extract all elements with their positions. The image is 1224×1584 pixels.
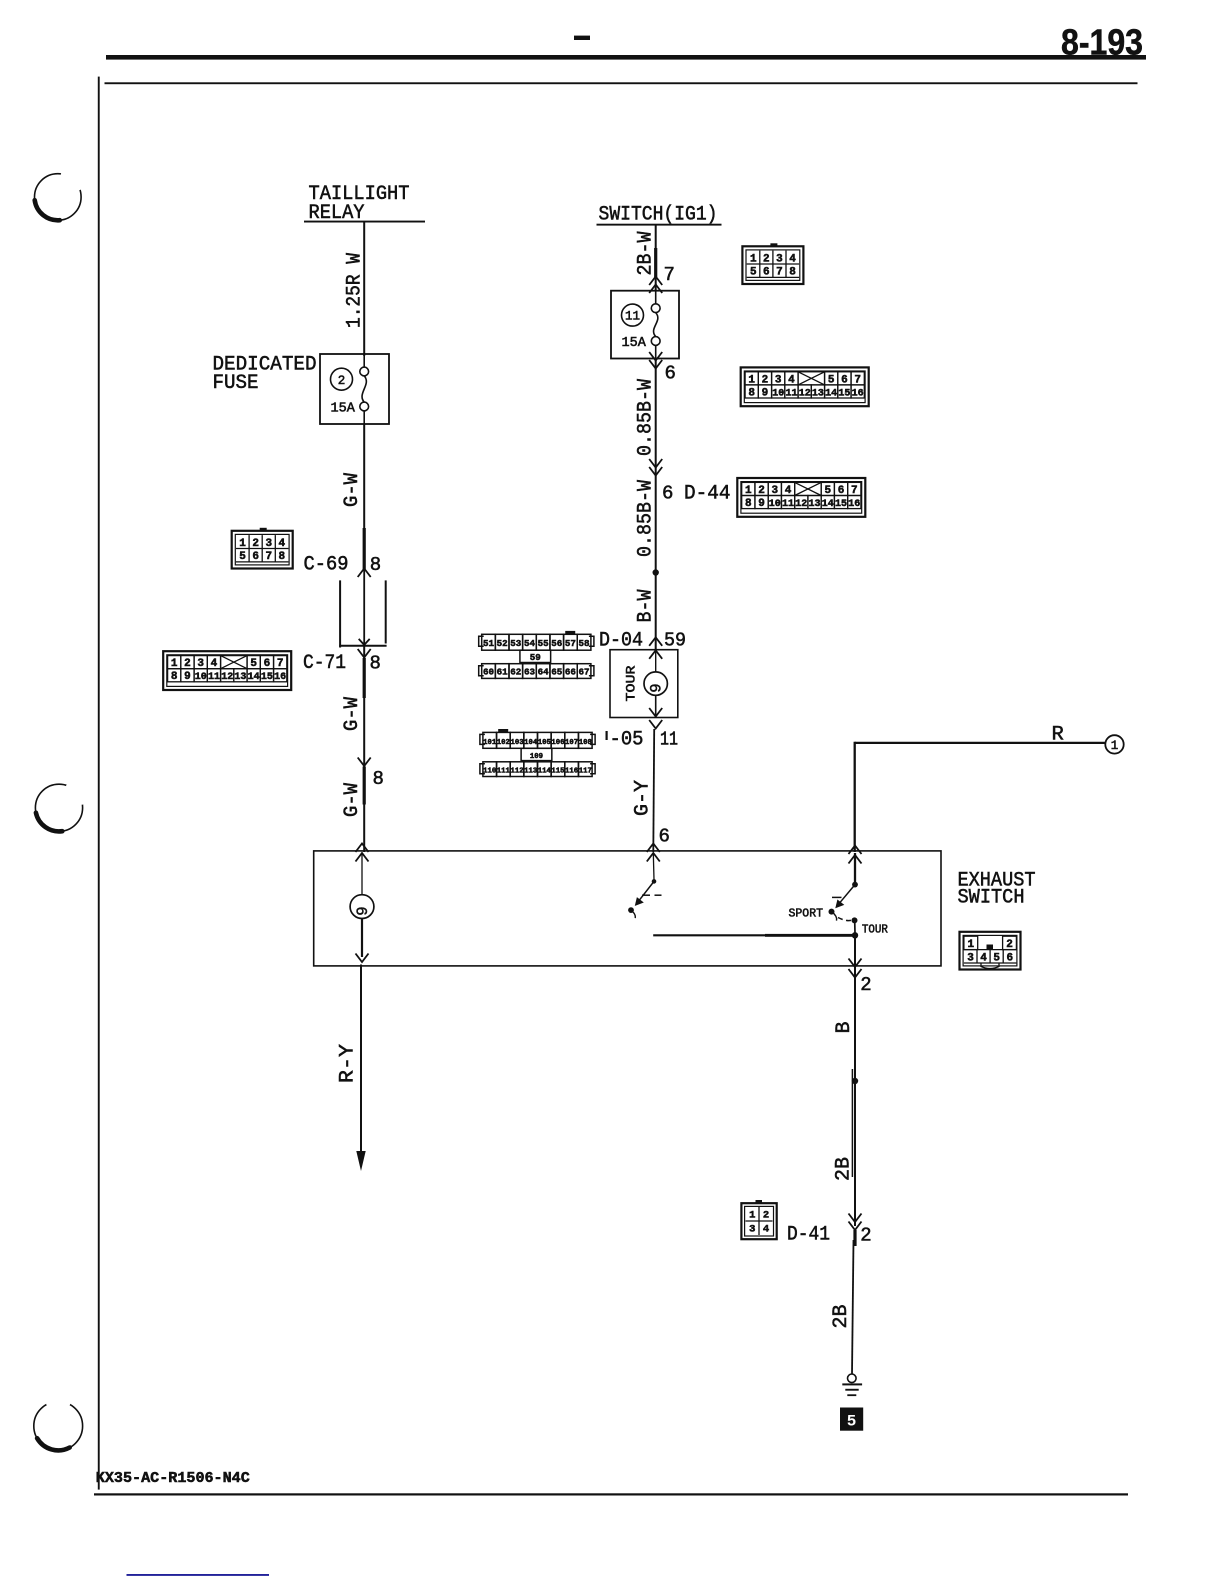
- svg-text:7: 7: [851, 485, 858, 497]
- svg-text:1: 1: [749, 1210, 755, 1222]
- svg-text:15: 15: [261, 672, 273, 683]
- svg-text:51: 51: [483, 638, 495, 649]
- wire B below exhaust switch: [854, 935, 856, 1226]
- switch common line to TOUR contact: [653, 934, 855, 936]
- svg-text:3: 3: [775, 374, 782, 386]
- svg-text:4: 4: [279, 538, 286, 550]
- inline connector arrow C-71 pin 8: [358, 649, 371, 658]
- inline connector arrow C-69 pin 8: [363, 528, 366, 569]
- svg-text:B-W: B-W: [635, 589, 658, 623]
- svg-text:3: 3: [967, 952, 974, 964]
- dashed link SPORT to TOUR: [838, 918, 851, 921]
- left page border line: [98, 77, 100, 1490]
- inline connector arrow D-44 pin 6: [649, 467, 662, 476]
- svg-text:107: 107: [565, 739, 578, 747]
- svg-text:2: 2: [758, 485, 765, 497]
- svg-text:9: 9: [758, 498, 765, 510]
- svg-text:16: 16: [274, 672, 286, 683]
- ring terminal 1: [1105, 735, 1123, 753]
- svg-text:SWITCH(IG1): SWITCH(IG1): [599, 204, 718, 227]
- svg-text:1: 1: [171, 658, 178, 670]
- connector pinout 8-pin (switch IG1): [770, 243, 777, 247]
- svg-text:11: 11: [660, 729, 678, 751]
- svg-text:0.85B-W: 0.85B-W: [635, 479, 658, 557]
- inline connector arrow D-41 pin 2: [849, 1222, 862, 1231]
- connector C-71 pinout (16-pin): [163, 651, 291, 690]
- wire R-Y to ground terminal: [360, 965, 362, 1155]
- svg-text:6: 6: [662, 483, 673, 505]
- svg-text:58: 58: [579, 638, 591, 649]
- svg-text:114: 114: [538, 767, 552, 775]
- svg-text:14: 14: [822, 499, 834, 510]
- svg-text:102: 102: [497, 739, 510, 747]
- svg-text:9: 9: [762, 387, 769, 399]
- svg-text:FUSE: FUSE: [213, 372, 259, 395]
- svg-text:16: 16: [852, 388, 864, 399]
- svg-text:1: 1: [750, 253, 757, 265]
- svg-text:8: 8: [748, 387, 755, 399]
- arrow into exhaust switch box left pin: [356, 844, 369, 853]
- svg-text:56: 56: [551, 638, 562, 649]
- switch position dash right: [832, 896, 842, 898]
- wire R to connector 1: [855, 742, 1106, 744]
- svg-text:112: 112: [510, 767, 523, 775]
- hole punch bottom: [34, 1402, 83, 1451]
- svg-text:7: 7: [776, 267, 783, 279]
- taillight relay bus underline: [304, 221, 425, 223]
- svg-text:15: 15: [835, 499, 847, 510]
- svg-text:2B-W: 2B-W: [635, 231, 658, 276]
- svg-text:105: 105: [538, 739, 551, 747]
- svg-text:14: 14: [248, 672, 260, 683]
- svg-text:11: 11: [785, 388, 797, 399]
- ground symbol: [848, 1374, 857, 1383]
- svg-text:5: 5: [847, 1413, 857, 1431]
- svg-text:KX35-AC-R1506-N4C: KX35-AC-R1506-N4C: [96, 1470, 250, 1487]
- svg-text:4: 4: [763, 1224, 769, 1236]
- connector D-04 pinout (pins 51-67): [565, 631, 575, 635]
- connector D-44 pinout (16-pin): [737, 478, 865, 517]
- svg-text:2: 2: [763, 1210, 769, 1222]
- svg-text:65: 65: [551, 666, 563, 677]
- svg-text:4: 4: [785, 485, 792, 497]
- svg-text:16: 16: [848, 499, 860, 510]
- parallel wire segment 2B: [851, 1069, 853, 1177]
- wire into joint bracket: [363, 569, 365, 646]
- svg-text:6: 6: [763, 267, 770, 279]
- svg-text:8: 8: [370, 554, 381, 576]
- footer rule: [94, 1493, 1128, 1495]
- connector C-69 pinout (8-pin): [260, 528, 267, 532]
- svg-text:2B: 2B: [830, 1305, 853, 1329]
- svg-text:101: 101: [483, 739, 497, 747]
- svg-text:5: 5: [250, 658, 257, 670]
- svg-text:108: 108: [579, 739, 592, 747]
- header dash mark: [574, 36, 590, 40]
- svg-text:15: 15: [838, 388, 850, 399]
- svg-text:6: 6: [264, 658, 271, 670]
- SPORT contact: [829, 909, 835, 915]
- svg-text:12: 12: [799, 388, 811, 399]
- wire G-Y to exhaust switch: [652, 729, 655, 852]
- svg-text:R-Y: R-Y: [337, 1044, 360, 1083]
- svg-text:2: 2: [184, 658, 191, 670]
- svg-text:111: 111: [497, 767, 511, 775]
- header thick rule: [106, 55, 1146, 60]
- svg-text:6: 6: [659, 826, 670, 848]
- inline connector arrow pin 7: [649, 277, 662, 286]
- svg-text:2B: 2B: [833, 1157, 856, 1181]
- svg-text:11: 11: [208, 672, 220, 683]
- svg-text:59: 59: [664, 630, 686, 652]
- header thin rule: [105, 82, 1138, 84]
- svg-text:66: 66: [565, 666, 576, 677]
- svg-text:61: 61: [497, 666, 509, 677]
- junction node on B wire: [852, 1078, 858, 1084]
- svg-text:3: 3: [197, 658, 204, 670]
- svg-text:106: 106: [551, 739, 564, 747]
- svg-text:2: 2: [763, 253, 770, 265]
- svg-text:9: 9: [184, 671, 191, 683]
- wire G-W below C-71: [363, 646, 365, 852]
- svg-text:59: 59: [530, 652, 541, 663]
- connector pinout 16-pin (below fuse): [741, 367, 869, 406]
- connector pinout 6-pin (exhaust switch): [960, 932, 1021, 970]
- svg-text:G-W: G-W: [341, 782, 364, 817]
- svg-text:4: 4: [788, 374, 795, 386]
- svg-text:C-71: C-71: [303, 652, 346, 675]
- svg-text:6: 6: [841, 374, 848, 386]
- svg-text:B: B: [833, 1022, 856, 1034]
- svg-text:3: 3: [772, 485, 779, 497]
- svg-text:103: 103: [510, 739, 524, 747]
- svg-text:SWITCH: SWITCH: [958, 887, 1025, 910]
- svg-text:117: 117: [579, 767, 592, 775]
- svg-text:12: 12: [221, 672, 233, 683]
- svg-text:110: 110: [483, 767, 496, 775]
- svg-text:9: 9: [648, 683, 666, 692]
- svg-text:G-W: G-W: [341, 696, 364, 731]
- svg-text:5: 5: [239, 551, 246, 563]
- svg-text:6: 6: [838, 485, 845, 497]
- joint connector bracket: [339, 580, 341, 647]
- TOUR indicator box: [610, 650, 678, 718]
- svg-text:2: 2: [338, 374, 346, 388]
- inline connector arrow D-04 pin 59: [649, 637, 662, 646]
- svg-text:0.85B-W: 0.85B-W: [635, 378, 658, 456]
- svg-text:116: 116: [565, 767, 578, 775]
- exhaust switch box: [314, 851, 941, 966]
- svg-text:7: 7: [854, 374, 861, 386]
- fuse 11 15A box: [611, 291, 679, 359]
- svg-text:SPORT: SPORT: [789, 908, 824, 921]
- svg-text:4: 4: [789, 253, 796, 265]
- svg-text:109: 109: [530, 753, 543, 761]
- wire 0.85B-W below fuse 11: [655, 359, 657, 650]
- svg-text:10: 10: [195, 672, 207, 683]
- switch position dash: [642, 894, 650, 896]
- svg-text:5: 5: [750, 267, 757, 279]
- svg-text:113: 113: [524, 767, 538, 775]
- label D-05: [606, 731, 608, 740]
- svg-text:2: 2: [252, 538, 259, 550]
- svg-text:9: 9: [354, 906, 372, 915]
- svg-text:8: 8: [370, 653, 381, 675]
- arrow into exhaust switch right pin: [849, 846, 862, 855]
- TOUR contact: [852, 917, 858, 923]
- arrow below exhaust switch pin 2: [849, 959, 862, 968]
- svg-text:1.25R W: 1.25R W: [344, 252, 367, 328]
- svg-text:8: 8: [373, 768, 384, 790]
- svg-text:8: 8: [789, 267, 796, 279]
- wire 2B-W below switch IG1: [655, 226, 657, 292]
- svg-text:15A: 15A: [622, 336, 647, 351]
- svg-text:5: 5: [828, 374, 835, 386]
- svg-text:104: 104: [524, 739, 538, 747]
- svg-text:62: 62: [510, 666, 521, 677]
- indicator lamp 9 in TOUR box: [644, 672, 667, 695]
- svg-text:3: 3: [749, 1224, 755, 1236]
- switch IG1 bus underline: [597, 224, 722, 226]
- svg-text:55: 55: [538, 638, 550, 649]
- svg-text:7: 7: [265, 551, 272, 563]
- hole punch top: [35, 174, 82, 221]
- svg-text:6: 6: [1006, 952, 1013, 964]
- dedicated fuse box 2 15A: [320, 354, 389, 424]
- inline connector arrow pin 8: [358, 758, 371, 767]
- svg-text:4: 4: [980, 952, 987, 964]
- svg-text:5: 5: [993, 952, 1000, 964]
- arrow at exhaust switch box bottom left: [356, 954, 369, 963]
- wire G-W below dedicated fuse: [363, 424, 365, 569]
- svg-text:64: 64: [538, 666, 550, 677]
- svg-text:10: 10: [772, 388, 784, 399]
- svg-text:11: 11: [625, 310, 640, 324]
- arrow at bracket bottom: [359, 639, 370, 645]
- svg-text:6: 6: [665, 363, 676, 385]
- svg-text:TOUR: TOUR: [625, 665, 639, 702]
- svg-text:-05: -05: [610, 729, 644, 752]
- svg-text:TOUR: TOUR: [862, 924, 888, 937]
- junction node at TOUR: [852, 932, 858, 938]
- svg-text:2: 2: [860, 1225, 871, 1247]
- connector D-05 pinout (pins 101-117): [498, 729, 508, 733]
- svg-text:7: 7: [277, 658, 284, 670]
- svg-text:52: 52: [497, 638, 508, 649]
- svg-text:115: 115: [551, 767, 564, 775]
- svg-text:57: 57: [565, 638, 576, 649]
- svg-text:1: 1: [1111, 739, 1119, 753]
- footer blue line: [127, 1574, 270, 1576]
- svg-text:13: 13: [812, 388, 824, 399]
- svg-text:60: 60: [483, 666, 494, 677]
- svg-text:G-W: G-W: [341, 472, 364, 507]
- svg-text:5: 5: [824, 485, 831, 497]
- junction node on B-W wire: [653, 569, 659, 575]
- svg-text:3: 3: [265, 538, 272, 550]
- sport/tour selector switch: [854, 853, 856, 882]
- svg-text:12: 12: [795, 499, 807, 510]
- svg-text:2: 2: [860, 974, 871, 996]
- middle switch contact (pin 6): [652, 853, 655, 880]
- svg-text:D-44: D-44: [684, 483, 731, 506]
- svg-text:54: 54: [524, 638, 536, 649]
- svg-text:3: 3: [776, 253, 783, 265]
- arrow at TOUR box bottom: [649, 708, 662, 717]
- wire 1.25R W from taillight relay to dedicated fuse: [363, 222, 365, 356]
- wire 2B to ground: [852, 1240, 854, 1374]
- svg-text:63: 63: [524, 666, 536, 677]
- svg-text:11: 11: [782, 499, 794, 510]
- svg-text:10: 10: [769, 499, 781, 510]
- svg-text:7: 7: [664, 264, 675, 286]
- svg-text:8: 8: [745, 498, 752, 510]
- svg-text:67: 67: [579, 666, 590, 677]
- svg-text:R: R: [1052, 724, 1064, 747]
- wire through TOUR box: [655, 651, 657, 672]
- svg-text:53: 53: [510, 638, 522, 649]
- svg-text:2: 2: [762, 374, 769, 386]
- indicator lamp 9 in exhaust switch: [361, 853, 363, 895]
- svg-text:1: 1: [239, 538, 246, 550]
- svg-text:D-41: D-41: [787, 1224, 830, 1247]
- svg-text:15A: 15A: [331, 402, 356, 417]
- svg-text:6: 6: [252, 551, 259, 563]
- svg-text:4: 4: [211, 658, 218, 670]
- svg-text:13: 13: [809, 499, 821, 510]
- svg-text:1: 1: [745, 485, 752, 497]
- svg-text:8: 8: [171, 671, 178, 683]
- svg-text:8: 8: [279, 551, 286, 563]
- terminal arrowhead R-Y: [356, 1151, 365, 1171]
- svg-text:13: 13: [234, 672, 246, 683]
- svg-text:C-69: C-69: [304, 554, 349, 577]
- hole punch middle: [35, 784, 82, 831]
- svg-text:1: 1: [748, 374, 755, 386]
- svg-text:14: 14: [825, 388, 837, 399]
- svg-text:G-Y: G-Y: [632, 780, 655, 816]
- arrow into exhaust switch pin 6: [647, 844, 660, 853]
- connector D-41 pinout (4-pin): [756, 1200, 763, 1203]
- ground reference 5 marker: [840, 1408, 863, 1431]
- arrow below fuse 11: [649, 360, 662, 369]
